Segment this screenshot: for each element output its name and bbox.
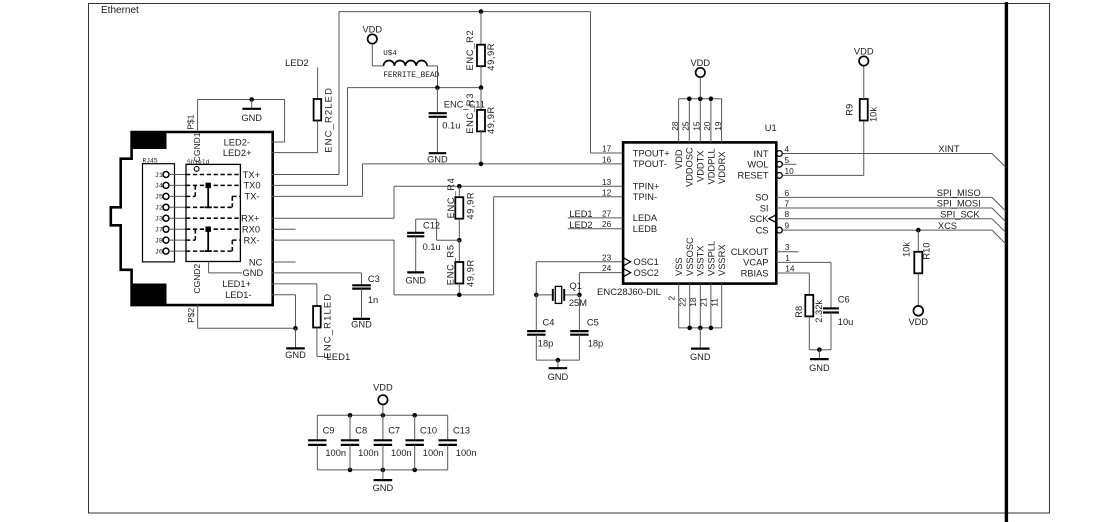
svg-text:VDDTX: VDDTX: [696, 150, 706, 182]
svg-text:100n: 100n: [358, 448, 379, 458]
svg-text:TX-: TX-: [245, 192, 260, 202]
svg-text:P$2: P$2: [186, 308, 196, 323]
svg-text:C12: C12: [423, 220, 440, 230]
svg-text:CGND2: CGND2: [192, 263, 202, 293]
svg-text:VDDOSC: VDDOSC: [685, 147, 695, 187]
svg-text:CLKOUT: CLKOUT: [731, 247, 769, 257]
svg-text:23: 23: [602, 252, 612, 262]
svg-text:VDD: VDD: [373, 383, 393, 393]
svg-text:INT: INT: [754, 149, 769, 159]
svg-text:J6: J6: [155, 248, 163, 256]
svg-text:0.1u: 0.1u: [442, 121, 460, 131]
svg-text:LED2: LED2: [569, 220, 592, 230]
svg-text:49,9R: 49,9R: [465, 259, 475, 287]
svg-text:8: 8: [785, 209, 790, 219]
svg-text:R10: R10: [921, 243, 931, 260]
svg-text:GND: GND: [690, 352, 711, 362]
svg-text:GND: GND: [373, 483, 394, 493]
svg-text:RBIAS: RBIAS: [741, 268, 769, 278]
svg-text:R9: R9: [844, 104, 854, 116]
svg-text:SO: SO: [755, 193, 768, 203]
svg-text:100n: 100n: [391, 448, 412, 458]
svg-text:LED2: LED2: [285, 58, 309, 69]
svg-text:WOL: WOL: [747, 160, 768, 170]
svg-text:SPI_MISO: SPI_MISO: [937, 188, 981, 198]
svg-text:NC: NC: [249, 257, 263, 267]
svg-text:4: 4: [785, 144, 790, 154]
svg-text:25M: 25M: [569, 298, 587, 308]
svg-text:LED1-: LED1-: [225, 290, 251, 300]
svg-text:LED2+: LED2+: [223, 148, 252, 158]
svg-text:RX0: RX0: [242, 225, 260, 235]
svg-text:ENC_R3: ENC_R3: [465, 93, 475, 134]
svg-text:VDDPLL: VDDPLL: [706, 148, 716, 184]
svg-text:LEDA: LEDA: [633, 213, 658, 223]
svg-text:Q1: Q1: [570, 281, 582, 291]
svg-text:GND: GND: [548, 372, 569, 382]
svg-text:VDD: VDD: [690, 58, 710, 68]
svg-text:10: 10: [785, 166, 795, 176]
svg-text:49,9R: 49,9R: [486, 106, 496, 134]
svg-text:28: 28: [670, 121, 680, 131]
svg-text:49,9R: 49,9R: [486, 43, 496, 71]
svg-text:ENC_R2LED: ENC_R2LED: [323, 87, 334, 153]
svg-text:3: 3: [785, 242, 790, 252]
svg-text:10u: 10u: [838, 317, 854, 327]
svg-text:RJ45: RJ45: [143, 158, 158, 165]
svg-text:18p: 18p: [588, 338, 604, 348]
svg-text:ENC_R4: ENC_R4: [446, 178, 456, 219]
svg-text:CS: CS: [756, 225, 769, 235]
svg-text:1n: 1n: [368, 295, 378, 305]
svg-text:C8: C8: [355, 425, 367, 435]
svg-text:LED1: LED1: [569, 209, 592, 219]
svg-text:GND: GND: [241, 113, 262, 123]
svg-text:GND: GND: [427, 155, 448, 165]
svg-text:SPI_SCK: SPI_SCK: [940, 210, 980, 220]
svg-text:P$1: P$1: [185, 114, 195, 129]
svg-text:C10: C10: [420, 425, 437, 435]
svg-text:J5: J5: [155, 194, 163, 202]
svg-text:C6: C6: [838, 295, 850, 305]
svg-text:GND: GND: [351, 319, 372, 329]
svg-text:VDD: VDD: [362, 25, 382, 35]
svg-text:SPI_MOSI: SPI_MOSI: [937, 199, 981, 209]
svg-text:SCK: SCK: [749, 214, 769, 224]
svg-text:OSC2: OSC2: [634, 268, 659, 278]
svg-text:U$4: U$4: [383, 50, 397, 58]
svg-text:18p: 18p: [538, 338, 554, 348]
svg-text:RX-: RX-: [243, 235, 259, 245]
svg-text:18: 18: [688, 297, 698, 307]
svg-text:17: 17: [602, 144, 612, 154]
svg-text:10k: 10k: [869, 107, 879, 122]
svg-text:25: 25: [681, 121, 691, 131]
svg-text:0.1u: 0.1u: [423, 242, 441, 252]
svg-text:C3: C3: [368, 274, 380, 284]
svg-text:24: 24: [602, 263, 612, 273]
svg-text:GND: GND: [809, 363, 830, 373]
svg-text:VSS: VSS: [674, 257, 684, 276]
svg-text:15: 15: [692, 121, 702, 131]
svg-text:100n: 100n: [456, 448, 477, 458]
svg-text:9: 9: [785, 221, 790, 231]
svg-text:12: 12: [602, 187, 612, 197]
svg-text:20: 20: [702, 121, 712, 131]
svg-text:J4: J4: [155, 183, 163, 191]
svg-text:U1: U1: [765, 123, 777, 133]
svg-text:J2: J2: [155, 205, 163, 213]
svg-text:GND: GND: [405, 275, 426, 285]
svg-text:16: 16: [602, 154, 612, 164]
svg-text:6: 6: [785, 188, 790, 198]
svg-text:C7: C7: [388, 425, 400, 435]
svg-text:11: 11: [710, 298, 720, 307]
svg-text:RX+: RX+: [241, 214, 259, 224]
svg-text:TPOUT-: TPOUT-: [633, 159, 667, 169]
svg-text:TPIN-: TPIN-: [633, 192, 657, 202]
svg-text:FERRITE_BEAD: FERRITE_BEAD: [383, 72, 439, 80]
svg-text:J8: J8: [155, 237, 163, 245]
svg-text:J1: J1: [155, 172, 163, 180]
svg-text:RESET: RESET: [738, 171, 769, 181]
svg-text:49,9R: 49,9R: [465, 192, 475, 220]
svg-text:CGND1: CGND1: [192, 132, 202, 162]
svg-text:J7: J7: [155, 227, 163, 235]
svg-text:VSSRX: VSSRX: [717, 244, 727, 276]
svg-text:R8: R8: [794, 306, 804, 318]
svg-text:VDD: VDD: [908, 317, 928, 327]
svg-text:TPOUT+: TPOUT+: [633, 148, 670, 158]
svg-text:2.32k: 2.32k: [814, 300, 824, 323]
svg-text:TPIN+: TPIN+: [633, 182, 660, 192]
svg-text:ENC28J60-DIL: ENC28J60-DIL: [597, 287, 661, 298]
svg-text:XINT: XINT: [938, 144, 959, 154]
svg-text:LEDB: LEDB: [633, 224, 657, 234]
svg-text:VCAP: VCAP: [743, 258, 768, 268]
svg-text:VDD: VDD: [854, 47, 874, 57]
svg-text:VSSOSC: VSSOSC: [685, 237, 695, 276]
svg-text:ENC_R2: ENC_R2: [465, 30, 475, 71]
svg-text:LED1: LED1: [327, 352, 351, 363]
svg-text:10k: 10k: [901, 242, 911, 257]
svg-text:27: 27: [602, 208, 612, 218]
svg-text:SI: SI: [760, 203, 769, 213]
svg-text:LED1+: LED1+: [222, 279, 251, 289]
svg-text:VSSTX: VSSTX: [696, 246, 706, 276]
svg-text:21: 21: [699, 297, 709, 307]
svg-text:2: 2: [667, 296, 677, 301]
svg-text:1: 1: [785, 253, 790, 263]
svg-text:100n: 100n: [325, 448, 346, 458]
svg-text:XCS: XCS: [938, 221, 957, 231]
svg-text:VDDRX: VDDRX: [717, 151, 727, 184]
svg-text:ENC_R1LED: ENC_R1LED: [323, 293, 334, 359]
svg-text:14: 14: [785, 263, 795, 273]
svg-text:C5: C5: [587, 318, 599, 328]
svg-text:TX+: TX+: [243, 170, 260, 180]
svg-text:100n: 100n: [423, 448, 444, 458]
svg-text:GND: GND: [243, 268, 264, 278]
svg-text:VSSPLL: VSSPLL: [706, 241, 716, 276]
svg-text:13: 13: [602, 177, 612, 187]
svg-text:ENC_R5: ENC_R5: [446, 244, 456, 285]
svg-text:GND: GND: [285, 350, 306, 360]
svg-text:OSC1: OSC1: [634, 257, 659, 267]
svg-text:5: 5: [785, 155, 790, 165]
svg-text:19: 19: [713, 121, 723, 131]
svg-text:22: 22: [678, 297, 688, 307]
svg-text:C13: C13: [453, 425, 470, 435]
svg-text:TX0: TX0: [243, 181, 260, 191]
svg-text:LED2-: LED2-: [224, 137, 250, 147]
svg-text:26: 26: [602, 219, 612, 229]
svg-text:C4: C4: [543, 318, 555, 328]
svg-text:VDD: VDD: [674, 149, 684, 169]
svg-text:Ethernet: Ethernet: [101, 5, 139, 16]
svg-text:C9: C9: [323, 425, 335, 435]
svg-text:J3: J3: [155, 216, 163, 224]
svg-text:7: 7: [785, 199, 790, 209]
